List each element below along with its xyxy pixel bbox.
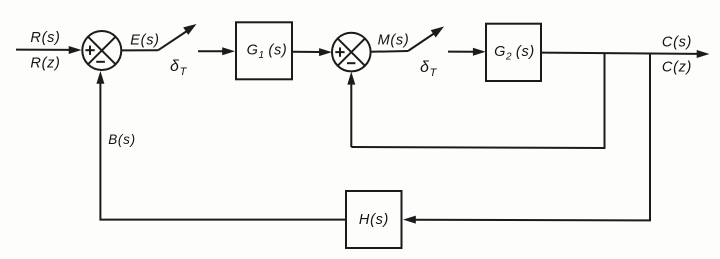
- wire feedback up to summer 1: [96, 71, 104, 221]
- sampler switch 1: [158, 24, 197, 50]
- svg-text:R(s): R(s): [30, 30, 60, 46]
- wire G1 to summer 2: [292, 48, 332, 56]
- block H(s): [346, 191, 402, 248]
- node takeoff outer loop: [649, 54, 651, 221]
- wire sampler 2 to G2: [448, 48, 486, 56]
- svg-text:R(z): R(z): [30, 55, 60, 71]
- svg-text:C(s): C(s): [662, 35, 692, 51]
- svg-text:M(s): M(s): [378, 33, 410, 49]
- sampler switch 2: [408, 27, 444, 52]
- svg-text:H(s): H(s): [359, 212, 389, 228]
- wire outer feedback to H: [403, 216, 651, 224]
- summing junction 1: [82, 31, 121, 70]
- svg-text:G1 (s): G1 (s): [247, 43, 288, 62]
- svg-text:E(s): E(s): [130, 32, 159, 48]
- wire input R to summer 1: [16, 49, 71, 51]
- node takeoff inner loop: [604, 54, 606, 148]
- wire summer 2 to sampler 2: [371, 50, 408, 53]
- wire G2 to output C: [541, 50, 710, 58]
- svg-text:G2 (s): G2 (s): [494, 44, 535, 63]
- wire sampler 1 to G1: [198, 47, 235, 55]
- summing junction 2: [332, 33, 371, 72]
- block G1(s): [236, 22, 292, 79]
- wire summer 1 to sampler 1: [121, 49, 158, 51]
- wire H to left vertical: [100, 219, 347, 221]
- block G2(s): [486, 24, 541, 81]
- wire inner feedback bottom: [351, 147, 605, 148]
- svg-text:C(z): C(z): [662, 60, 692, 76]
- wire inner feedback up to summer 2: [347, 72, 355, 147]
- svg-text:B(s): B(s): [108, 132, 136, 147]
